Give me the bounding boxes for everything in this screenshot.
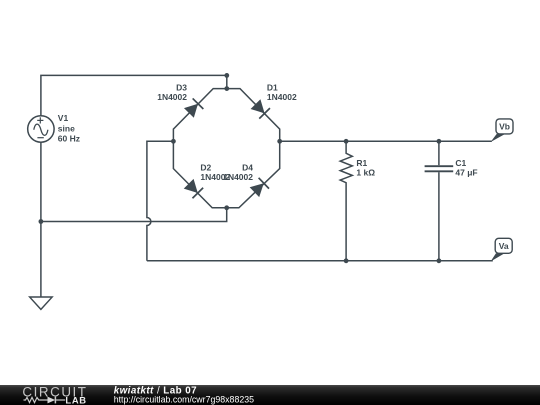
svg-text:D1: D1: [267, 83, 278, 93]
svg-text:1N4002: 1N4002: [223, 172, 253, 182]
svg-text:60 Hz: 60 Hz: [58, 134, 80, 144]
svg-text:V1: V1: [58, 113, 69, 123]
svg-text:Va: Va: [499, 241, 509, 251]
svg-text:Vb: Vb: [499, 122, 510, 132]
svg-text:47 μF: 47 μF: [455, 168, 477, 178]
svg-text:D4: D4: [242, 162, 253, 172]
svg-text:http://circuitlab.com/cwr7g98x: http://circuitlab.com/cwr7g98x88235: [114, 395, 254, 405]
svg-text:sine: sine: [58, 123, 75, 133]
svg-text:1N4002: 1N4002: [157, 92, 187, 102]
svg-text:R1: R1: [356, 158, 367, 168]
svg-text:D3: D3: [176, 83, 187, 93]
svg-text:D2: D2: [200, 162, 211, 172]
svg-text:1N4002: 1N4002: [267, 92, 297, 102]
svg-text:LAB: LAB: [65, 394, 86, 405]
svg-text:C1: C1: [455, 158, 466, 168]
svg-text:1 kΩ: 1 kΩ: [356, 168, 375, 178]
